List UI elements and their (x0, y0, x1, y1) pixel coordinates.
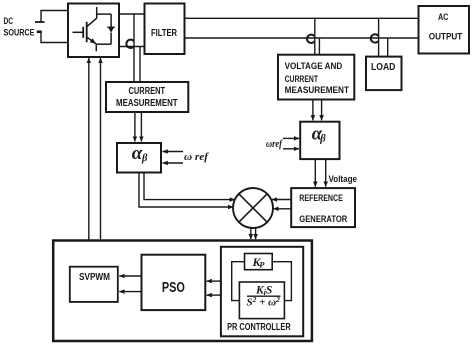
svg-text:CURRENT: CURRENT (129, 86, 166, 97)
svg-text:SVPWM: SVPWM (79, 272, 110, 283)
svg-text:PSO: PSO (162, 280, 185, 296)
svg-text:MEASUREMENT: MEASUREMENT (116, 98, 178, 109)
svg-text:P: P (259, 259, 265, 269)
svg-text:KiS: KiS (255, 285, 272, 298)
svg-text:β: β (141, 153, 148, 164)
svg-text:OUTPUT: OUTPUT (429, 32, 463, 43)
svg-text:AC: AC (438, 12, 449, 23)
svg-text:SOURCE: SOURCE (4, 28, 35, 39)
svg-text:β: β (319, 134, 326, 145)
svg-text:DC: DC (4, 16, 14, 27)
svg-text:GENERATOR: GENERATOR (299, 214, 347, 225)
svg-text:Voltage: Voltage (329, 174, 358, 184)
svg-text:ω ref: ω ref (184, 151, 209, 163)
svg-text:MEASUREMENT: MEASUREMENT (285, 85, 350, 96)
svg-text:CURRENT: CURRENT (285, 74, 319, 85)
svg-text:REFERENCE: REFERENCE (299, 193, 343, 204)
svg-text:LOAD: LOAD (371, 61, 396, 73)
svg-text:S2 + ω2: S2 + ω2 (247, 295, 281, 309)
svg-text:FILTER: FILTER (151, 28, 178, 39)
svg-text:VOLTAGE AND: VOLTAGE AND (285, 61, 343, 72)
svg-text:PR CONTROLLER: PR CONTROLLER (227, 321, 291, 333)
svg-text:ωref: ωref (266, 139, 283, 150)
